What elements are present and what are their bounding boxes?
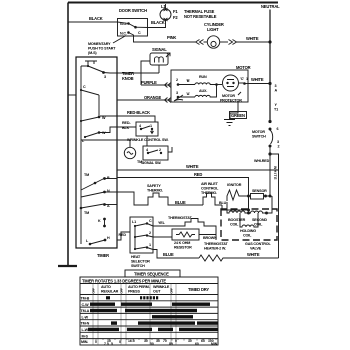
svg-text:HEATER-2 W.: HEATER-2 W. <box>204 247 226 251</box>
svg-text:2: 2 <box>159 148 161 152</box>
svg-text:KNOB: KNOB <box>122 76 134 81</box>
svg-text:3: 3 <box>277 140 279 144</box>
svg-text:PINK: PINK <box>167 35 176 40</box>
svg-text:30: 30 <box>188 339 192 343</box>
thermal fuse F1 F2 <box>160 4 217 21</box>
svg-text:COIL: COIL <box>243 234 252 238</box>
svg-text:LIGHT: LIGHT <box>207 27 219 32</box>
svg-text:60: 60 <box>195 342 199 346</box>
chart bars row L-W lower <box>88 328 218 331</box>
svg-text:COIL: COIL <box>230 223 239 227</box>
svg-text:SWITCH: SWITCH <box>131 264 145 268</box>
svg-text:50: 50 <box>150 342 154 346</box>
svg-text:24 K OHM: 24 K OHM <box>174 241 190 245</box>
svg-text:SECOND: SECOND <box>252 218 267 222</box>
svg-text:N.C.: N.C. <box>120 32 127 36</box>
svg-text:THERMO.: THERMO. <box>147 189 163 193</box>
wire L1 bus into timer <box>68 94 76 96</box>
wire red-black <box>117 110 155 122</box>
timer motor TM <box>117 140 142 164</box>
svg-text:0: 0 <box>119 340 121 344</box>
door switch <box>118 8 149 36</box>
svg-text:SWITCH: SWITCH <box>252 135 266 139</box>
svg-text:MOTOR: MOTOR <box>222 94 235 98</box>
timer contact C <box>80 85 99 117</box>
svg-text:'C': 'C' <box>240 77 244 81</box>
svg-text:WRINKLE CONTROL SW.: WRINKLE CONTROL SW. <box>127 138 168 142</box>
svg-text:M-S: M-S <box>82 334 89 338</box>
svg-text:TM-N: TM-N <box>81 322 90 326</box>
cylinder light <box>196 22 272 48</box>
timer contact TM-A <box>80 203 117 215</box>
svg-text:ORANGE: ORANGE <box>144 95 161 100</box>
svg-text:3: 3 <box>275 84 277 88</box>
wire bottom-left stub <box>58 265 77 267</box>
svg-text:BOOSTER: BOOSTER <box>228 218 246 222</box>
thermostat <box>147 216 217 240</box>
svg-text:WHITE: WHITE <box>247 252 260 257</box>
svg-text:TM: TM <box>84 211 89 215</box>
svg-text:IGNITOR: IGNITOR <box>227 183 242 187</box>
svg-text:WHITE: WHITE <box>246 36 259 41</box>
svg-text:NEUTRAL: NEUTRAL <box>261 4 280 9</box>
svg-text:MOTOR: MOTOR <box>252 130 265 134</box>
svg-text:MOTOR: MOTOR <box>236 65 251 70</box>
svg-text:SELECTOR: SELECTOR <box>131 260 150 264</box>
svg-text:1: 1 <box>149 243 151 247</box>
svg-text:35: 35 <box>156 339 160 343</box>
svg-text:OUT: OUT <box>153 290 161 294</box>
svg-text:RED-: RED- <box>122 121 131 125</box>
timer contact TM-B <box>81 173 110 190</box>
svg-text:7.5: 7.5 <box>104 342 109 346</box>
timer box <box>76 57 117 258</box>
wire pink <box>129 33 196 43</box>
svg-text:TIMED DRY: TIMED DRY <box>188 287 209 292</box>
svg-text:'A': 'A' <box>186 92 190 96</box>
timer wire to TM node <box>81 139 117 141</box>
timer contact K <box>98 218 106 228</box>
svg-text:3: 3 <box>176 91 178 95</box>
timer contact N <box>81 189 110 197</box>
svg-text:PURPLE: PURPLE <box>141 80 157 85</box>
svg-text:RESISTOR: RESISTOR <box>174 246 192 250</box>
svg-text:OFF: OFF <box>120 288 124 294</box>
svg-text:RED-BLACK: RED-BLACK <box>127 110 150 115</box>
svg-text:AUTO PERM.: AUTO PERM. <box>128 285 150 289</box>
ignitor <box>227 183 250 210</box>
timer contact L-H <box>86 236 110 245</box>
chart bars row TM-B <box>106 296 158 299</box>
wire bottom heater <box>147 242 279 261</box>
svg-text:SIGNAL: SIGNAL <box>152 47 167 52</box>
svg-text:WHITE: WHITE <box>186 164 199 169</box>
svg-text:L-W: L-W <box>82 328 89 332</box>
wire signal to timer knob node <box>104 61 160 85</box>
svg-text:1: 1 <box>150 124 152 128</box>
svg-text:CONTROL: CONTROL <box>201 187 219 191</box>
svg-text:RED: RED <box>194 172 202 177</box>
node WHI-RED <box>254 152 279 258</box>
resistor 24K <box>147 229 216 250</box>
timer contact W upper <box>80 116 117 122</box>
svg-text:SENSOR: SENSOR <box>252 189 267 193</box>
svg-text:OFF: OFF <box>170 288 174 294</box>
svg-text:AIR INLET: AIR INLET <box>201 182 219 186</box>
chart bars row TM-N <box>111 321 218 324</box>
svg-text:THERMOSTAT: THERMOSTAT <box>204 242 228 246</box>
chart bars row TM-A <box>90 309 197 312</box>
signal buzzer <box>150 47 170 65</box>
svg-text:0: 0 <box>175 339 177 343</box>
svg-text:BLUE: BLUE <box>175 200 186 205</box>
svg-text:RUN: RUN <box>199 75 207 79</box>
wire green + ground <box>224 102 247 126</box>
svg-text:HOLDING: HOLDING <box>240 229 256 233</box>
svg-text:BLU: BLU <box>219 201 227 205</box>
svg-text:BLACK: BLACK <box>89 16 103 21</box>
svg-text:MOMENTARY: MOMENTARY <box>88 42 111 46</box>
timer sequence chart <box>80 270 218 345</box>
svg-text:PRESS: PRESS <box>128 290 140 294</box>
svg-text:16.5: 16.5 <box>128 339 135 343</box>
svg-text:89: 89 <box>169 342 173 346</box>
momentary push to start text <box>88 36 126 56</box>
svg-text:BROWN: BROWN <box>203 236 217 240</box>
svg-text:WHITE: WHITE <box>251 77 264 82</box>
svg-text:GREEN: GREEN <box>231 113 245 118</box>
svg-text:L1: L1 <box>132 220 136 224</box>
svg-text:NOT RESETABLE: NOT RESETABLE <box>184 14 217 19</box>
svg-text:PROTECTOR: PROTECTOR <box>220 99 242 103</box>
wire left L1 bus <box>67 3 69 267</box>
svg-text:0: 0 <box>95 340 97 344</box>
svg-text:YEL: YEL <box>158 221 166 225</box>
svg-text:WHI-RED: WHI-RED <box>254 159 270 163</box>
air inlet control thermostat <box>201 182 250 212</box>
wire orange <box>117 95 171 103</box>
svg-text:TM-A: TM-A <box>81 309 90 313</box>
svg-text:TIMER: TIMER <box>97 253 109 258</box>
safety thermostat <box>105 184 204 205</box>
svg-text:WRINKLE: WRINKLE <box>153 285 170 289</box>
svg-text:5: 5 <box>111 342 113 346</box>
timer contact W lower <box>82 127 117 143</box>
svg-text:OFF: OFF <box>92 288 96 294</box>
svg-text:2: 2 <box>149 231 151 235</box>
wrinkle control switch <box>117 121 168 142</box>
timer common bus <box>80 66 82 244</box>
svg-text:'B': 'B' <box>186 79 190 83</box>
svg-text:PUSH TO START: PUSH TO START <box>88 47 116 51</box>
second coil <box>249 196 273 227</box>
motor switch <box>252 120 280 196</box>
svg-text:BLUE: BLUE <box>163 252 174 257</box>
svg-text:SAFETY: SAFETY <box>147 184 161 188</box>
wire black fuse to door switch <box>148 20 166 28</box>
wire white mid <box>117 154 279 170</box>
svg-text:1: 1 <box>246 77 248 81</box>
booster coil <box>227 202 250 227</box>
wire wrinkle to signal sw <box>146 136 148 146</box>
motor assembly <box>171 65 251 103</box>
svg-text:REGULAR: REGULAR <box>101 290 119 294</box>
svg-text:T1: T1 <box>274 108 278 112</box>
svg-text:RED: RED <box>119 233 127 237</box>
svg-text:DOOR SWITCH: DOOR SWITCH <box>119 8 147 13</box>
svg-text:HEAT: HEAT <box>131 255 141 259</box>
svg-text:TM: TM <box>84 173 89 177</box>
svg-text:65: 65 <box>201 339 205 343</box>
svg-text:TM-B: TM-B <box>81 297 90 301</box>
svg-text:3: 3 <box>104 75 106 79</box>
signal switch <box>141 146 172 165</box>
heat selector switch <box>117 217 153 268</box>
svg-text:C-W: C-W <box>82 303 90 307</box>
svg-text:6: 6 <box>277 127 279 131</box>
svg-text:AUTO: AUTO <box>101 285 111 289</box>
svg-text:TIMER SEQUENCE: TIMER SEQUENCE <box>134 272 169 277</box>
wire red mid <box>117 172 249 210</box>
svg-text:2: 2 <box>176 78 178 82</box>
chart bars row L-W upper <box>152 315 193 318</box>
wire black L1 to door switch <box>68 16 129 24</box>
wire purple <box>105 80 172 179</box>
svg-text:THERMOSTAT: THERMOSTAT <box>168 216 192 220</box>
wire white motor to neutral <box>248 77 272 85</box>
svg-text:TIMER ROTATES 1.33 DEGREES PER: TIMER ROTATES 1.33 DEGREES PER MINUTE <box>82 279 166 284</box>
svg-text:30: 30 <box>144 339 148 343</box>
svg-text:VALVE: VALVE <box>250 247 262 251</box>
svg-text:2: 2 <box>278 145 280 149</box>
svg-text:BLACK: BLACK <box>151 20 165 25</box>
svg-text:COIL: COIL <box>254 223 263 227</box>
sensor <box>251 189 272 199</box>
svg-text:GAS CONTROL: GAS CONTROL <box>245 242 271 246</box>
holding coil <box>240 213 258 238</box>
svg-text:MIN.: MIN. <box>81 340 88 344</box>
svg-text:SIGNAL SW.: SIGNAL SW. <box>141 161 161 165</box>
svg-text:L-W: L-W <box>82 315 89 319</box>
gas control valve dashed box <box>221 209 277 251</box>
chart axis <box>81 339 218 346</box>
timer knob contact T <box>85 61 134 81</box>
svg-text:70: 70 <box>163 339 167 343</box>
svg-text:AUX.: AUX. <box>199 89 207 93</box>
node L1 top bus <box>68 2 278 4</box>
svg-text:(M-S): (M-S) <box>88 51 97 55</box>
chart bars row C-W <box>90 303 210 306</box>
svg-text:MIN: MIN <box>211 342 218 346</box>
chart rows <box>80 297 218 339</box>
node NEUTRAL bus <box>261 4 280 122</box>
svg-text:W H I T E: W H I T E <box>273 166 277 180</box>
